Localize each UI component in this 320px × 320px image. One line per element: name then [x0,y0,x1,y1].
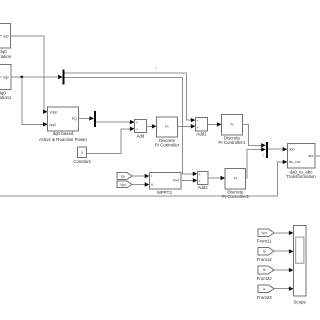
svg-text:dq0-based: dq0-based [53,131,74,136]
mux M3 [266,142,268,158]
svg-text:Vref: Vref [173,178,179,182]
wire Vpv tag to Scope.1 [274,231,294,235]
wire Ipv to MPPT [132,174,149,178]
svg-text:Transformation1: Transformation1 [0,95,12,100]
wire Constant to Add.in2 [87,127,135,154]
svg-text:Add2: Add2 [197,185,208,190]
svg-text:PI: PI [234,176,237,180]
svg-text:dq0: dq0 [289,147,295,151]
svg-text:PI: PI [165,125,168,129]
svg-text:abc: abc [308,154,314,158]
wire U2.dq0 to demux D1 [11,75,63,79]
wire D1.out2 to Add2.in1 [65,77,198,176]
block S1 Add [135,120,147,139]
block U6 MPPT2 [149,172,181,195]
svg-text:2: 2 [263,153,265,157]
svg-text:From22: From22 [257,276,273,281]
svg-text:sin_cos: sin_cos [289,160,301,164]
block U2 abc_to_dq0 Transformation1 [0,65,12,101]
svg-text:+: + [199,173,201,177]
svg-text:Ia: Ia [263,249,266,253]
svg-text:+: + [199,180,201,184]
svg-text:+: + [136,121,138,125]
svg-text:I: I [151,174,152,178]
wire PI2 to mux M3.in2 [246,147,266,178]
svg-text:dq0: dq0 [3,34,9,38]
svg-text:Transformation: Transformation [0,54,12,59]
svg-text:Add1: Add1 [196,132,207,137]
svg-text:MPPT2: MPPT2 [157,190,172,195]
svg-text:2: 2 [155,66,157,70]
wire MPPT to Add2.in2 [181,178,198,182]
svg-text:Transformation: Transformation [286,174,316,179]
svg-text:Scope: Scope [293,299,306,304]
wire PQ to demux D2 [78,116,94,120]
svg-text:From12: From12 [257,257,273,262]
svg-text:+: + [136,128,138,132]
tag From11 Vpv [257,229,274,243]
tag From Vpv [117,181,132,188]
svg-text:PI Controller1: PI Controller1 [218,140,245,145]
wire D1.out1 to Add1.in1 [65,73,196,122]
tag From23 Ic [257,285,274,300]
block U1 abc_to_dq0 Transformation [0,24,12,60]
wire Add2 to PI2 [208,176,225,180]
tag From Ipv [117,173,132,180]
wire Add to PI [146,124,156,128]
wire Ib tag to Scope.3 [274,268,294,272]
wire abc output stub [315,155,320,157]
wire Vpv to MPPT [132,182,149,186]
block S3 Add2 [197,172,208,190]
svg-text:Ipv: Ipv [121,174,126,178]
wire junction to PQ.Idq0 [22,77,48,127]
tag From22 Ib [257,266,274,281]
svg-text:Constant: Constant [73,159,91,164]
svg-text:PQ: PQ [72,117,77,121]
demux D2 [94,111,96,127]
svg-text:Add: Add [136,133,144,138]
block C1 Constant 0 [73,147,91,164]
wire D2.out to Add.in1 [96,120,134,124]
svg-text:Ic: Ic [263,287,266,291]
svg-text:+: + [197,126,199,130]
demux D1 [63,70,65,85]
block U4 Discrete PI Controller [155,117,180,147]
node junction on U2.dq0 wire [20,76,23,79]
svg-text:Idq0: Idq0 [49,123,56,127]
wire Ic tag to Scope.4 [274,287,294,291]
svg-text:+: + [197,119,199,123]
block S2 Add1 [195,118,207,137]
block U7 Discrete PI Controller2 [222,169,249,199]
wire U1.dq0 to PQ.Vdq0 [11,36,48,114]
tag From12 Ia [257,247,274,262]
wire Ia tag to Scope.2 [274,249,294,253]
svg-text:Ib: Ib [263,268,266,272]
svg-text:Vdq0: Vdq0 [49,111,57,115]
wire PI to Add1.in2 [177,124,195,128]
block U3 dq0-based Active & Reactive Power [39,107,88,142]
wire Add1 to PI1 [207,122,221,126]
wire PI1 to mux M3.in1 [242,124,265,147]
svg-text:Vpv: Vpv [261,231,267,235]
block U5 Discrete PI Controller1 [218,115,245,145]
svg-text:From11: From11 [257,238,272,243]
wire sin_cos long feeder [0,160,287,197]
block U8 dq0_to_abc Transformation [286,143,316,179]
svg-text:dq0: dq0 [3,75,9,79]
svg-text:0: 0 [81,151,83,155]
svg-text:PI: PI [230,123,233,127]
wire M3 to dq0_to_abc.dq0 [268,147,288,151]
svg-text:Active & Reactive Power: Active & Reactive Power [39,137,88,142]
svg-text:From23: From23 [257,295,273,300]
block SC1 Scope [293,225,306,304]
svg-text:PI Controller: PI Controller [155,142,180,147]
svg-text:Vpv: Vpv [120,183,126,187]
